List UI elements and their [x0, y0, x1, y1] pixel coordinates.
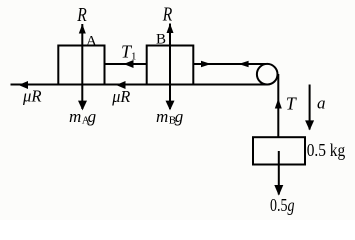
weight arrow 0.5g (down) — [278, 151, 280, 195]
tension T1 line between A and B — [105, 63, 147, 65]
block A — [58, 46, 104, 85]
block B — [147, 46, 194, 85]
arrowhead pointing right (tension on string from B) — [201, 61, 211, 67]
svg-text:R: R — [77, 4, 87, 26]
tension T arrowhead up on hanging string — [275, 99, 282, 109]
svg-text:R: R — [162, 3, 172, 25]
0.5g arrowhead down — [274, 185, 283, 196]
svg-text:T: T — [286, 94, 298, 114]
normal reaction arrow R on A (up) with weight mAg (down), vertical line — [81, 24, 83, 109]
svg-text:μR: μR — [111, 87, 131, 106]
friction arrowhead muR on block A (left end) — [19, 81, 29, 89]
string from B to pulley — [193, 63, 266, 65]
R arrowhead up (B) — [167, 24, 174, 34]
svg-text:B: B — [156, 32, 166, 48]
a arrowhead down — [305, 120, 314, 130]
svg-text:0.5g: 0.5g — [270, 195, 295, 215]
svg-text:0.5 kg: 0.5 kg — [307, 140, 346, 160]
hanging block 0.5 kg — [253, 137, 305, 164]
arrowhead pointing left (tension on B) — [239, 61, 249, 67]
R arrowhead up (A) — [79, 24, 86, 34]
surface line — [11, 84, 268, 86]
svg-text:1: 1 — [131, 51, 137, 63]
acceleration a arrow (down) — [309, 85, 311, 130]
svg-text:a: a — [317, 94, 326, 113]
T1 arrowhead (points left) — [124, 60, 134, 68]
svg-text:m: m — [156, 107, 168, 126]
friction arrowhead muR on block B (mid line) — [116, 81, 126, 89]
mAg arrowhead down (A) — [78, 101, 87, 111]
mBg arrowhead down (B) — [166, 101, 175, 111]
svg-text:g: g — [175, 107, 184, 126]
svg-text:μR: μR — [22, 87, 42, 106]
svg-text:g: g — [88, 107, 97, 126]
string down from pulley — [277, 74, 279, 137]
normal reaction arrow R on B (up) with weight mBg (down), vertical line — [169, 24, 171, 110]
svg-text:A: A — [86, 33, 97, 49]
pulley — [257, 64, 278, 85]
svg-text:m: m — [69, 107, 81, 126]
